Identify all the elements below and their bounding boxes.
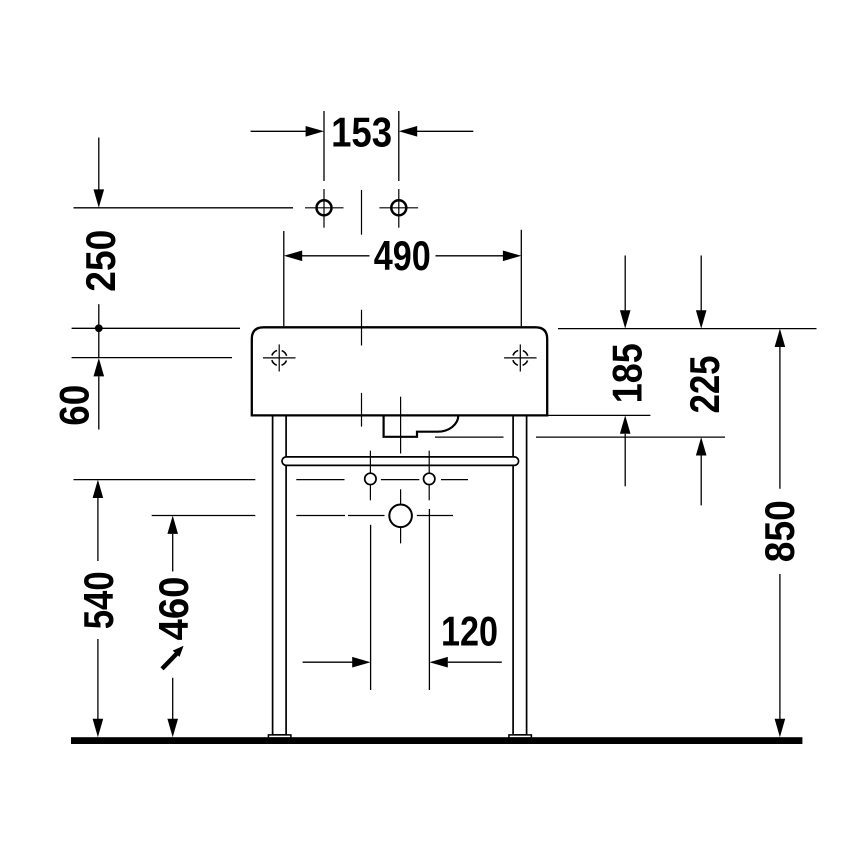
drain centerline (400, 397, 402, 544)
svg-text:490: 490 (374, 232, 431, 279)
svg-text:460: 460 (150, 577, 197, 641)
deck mounting hole left (263, 344, 296, 371)
svg-text:225: 225 (681, 356, 728, 414)
rail hole reference line (74, 479, 469, 481)
towel rail (282, 457, 519, 466)
dimension 540 line (93, 480, 104, 498)
svg-text:850: 850 (756, 500, 803, 562)
svg-text:120: 120 (441, 608, 498, 655)
svg-text:153: 153 (331, 109, 392, 156)
fixture centerline (361, 190, 363, 427)
right foot (509, 735, 532, 738)
rail hole right (424, 451, 435, 501)
dimension 460 line (167, 516, 178, 534)
dimension 153 arrows (251, 130, 474, 132)
dimension 225 top arrow (700, 256, 702, 311)
trap bottom reference line (435, 436, 725, 438)
dimension 225 bottom arrow (696, 437, 707, 455)
basin top reference line left (72, 327, 240, 329)
tap hole left (305, 189, 344, 228)
dimension 185 top arrow (624, 256, 626, 311)
tap hole right (379, 189, 418, 228)
dimension 60 arrow (94, 358, 105, 376)
dimension 490 arrows (302, 255, 504, 257)
dimension 490 extension lines (284, 230, 522, 326)
floor line (71, 737, 802, 744)
dimension 250 arrow (98, 138, 100, 190)
basin top reference line right (558, 328, 817, 330)
left leg (273, 415, 287, 735)
svg-text:540: 540 (75, 571, 122, 629)
svg-text:250: 250 (77, 230, 124, 292)
dimension 850 line (775, 329, 786, 347)
dimension 120 arrows (303, 661, 354, 663)
drain hole reference line (152, 515, 453, 517)
left foot (268, 735, 291, 738)
washbasin body (252, 327, 547, 415)
height adjustability arrow (162, 646, 184, 669)
tap reference line (74, 207, 294, 209)
dimension 185 bottom arrow (620, 415, 631, 433)
deck hole reference line left (72, 357, 232, 359)
dimension 60 line through datum (98, 304, 100, 358)
dimension 153 extension lines (324, 111, 399, 181)
dimension 120 extension lines (371, 509, 430, 690)
datum dot (95, 324, 103, 332)
rail hole left (365, 451, 376, 501)
right leg (513, 415, 527, 735)
svg-text:60: 60 (51, 385, 98, 426)
drain hole circle (389, 505, 412, 528)
basin bottom reference extension (547, 414, 650, 416)
drain trap outline (384, 415, 459, 436)
svg-text:185: 185 (604, 343, 651, 403)
deck mounting hole right (504, 344, 536, 371)
